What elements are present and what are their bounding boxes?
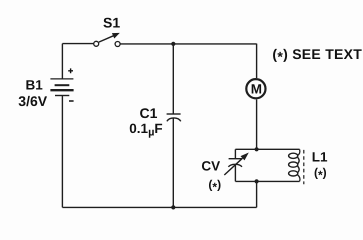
svg-text:3/6V: 3/6V — [18, 93, 47, 109]
motor M — [246, 79, 265, 98]
svg-text:S1: S1 — [103, 14, 120, 30]
wire left vertical bottom (battery to bottom rail) — [61, 96, 63, 208]
battery minus sign — [69, 100, 74, 102]
svg-text:C1: C1 — [140, 105, 158, 121]
node junction top rail / C1 — [171, 42, 175, 46]
wire tank bottom edge — [235, 180, 299, 182]
node junction tank top — [255, 147, 259, 151]
battery B1 — [18, 68, 73, 109]
svg-text:CV: CV — [201, 158, 220, 173]
capacitor CV (variable trimmer) — [201, 149, 248, 194]
svg-text:(*): (*) — [314, 165, 327, 181]
inductor L1 core (dashed) — [303, 150, 305, 184]
wire bottom rail — [62, 206, 256, 208]
svg-text:L1: L1 — [312, 150, 328, 165]
svg-text:B1: B1 — [26, 78, 44, 93]
inductor L1 coil — [289, 149, 328, 184]
wire top rail left segment — [62, 43, 93, 45]
battery plus sign — [68, 68, 73, 73]
capacitor C1 — [129, 44, 181, 208]
wire tank bottom to bottom rail — [256, 181, 258, 207]
wire right vertical (top rail to motor) — [256, 44, 258, 78]
svg-text:(*): (*) — [208, 178, 221, 194]
wire left vertical top (battery to top rail) — [61, 44, 63, 79]
switch S1 — [94, 14, 121, 46]
wire motor to tank top — [256, 99, 258, 149]
node junction tank bottom — [255, 179, 259, 183]
svg-text:M: M — [251, 82, 262, 97]
node junction bottom rail / C1 — [171, 205, 175, 209]
svg-text:(*) SEE TEXT: (*) SEE TEXT — [272, 46, 362, 65]
wire tank top edge — [235, 148, 299, 150]
svg-text:0.1µF: 0.1µF — [129, 121, 162, 139]
wire top rail right segment — [120, 43, 256, 45]
